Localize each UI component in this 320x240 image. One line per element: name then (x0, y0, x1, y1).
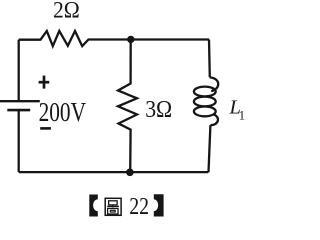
svg-text:1: 1 (239, 109, 245, 123)
svg-text:3Ω: 3Ω (145, 96, 172, 123)
svg-text:2Ω: 2Ω (53, 0, 80, 24)
svg-text:200V: 200V (39, 97, 87, 127)
svg-text:22: 22 (129, 193, 149, 220)
